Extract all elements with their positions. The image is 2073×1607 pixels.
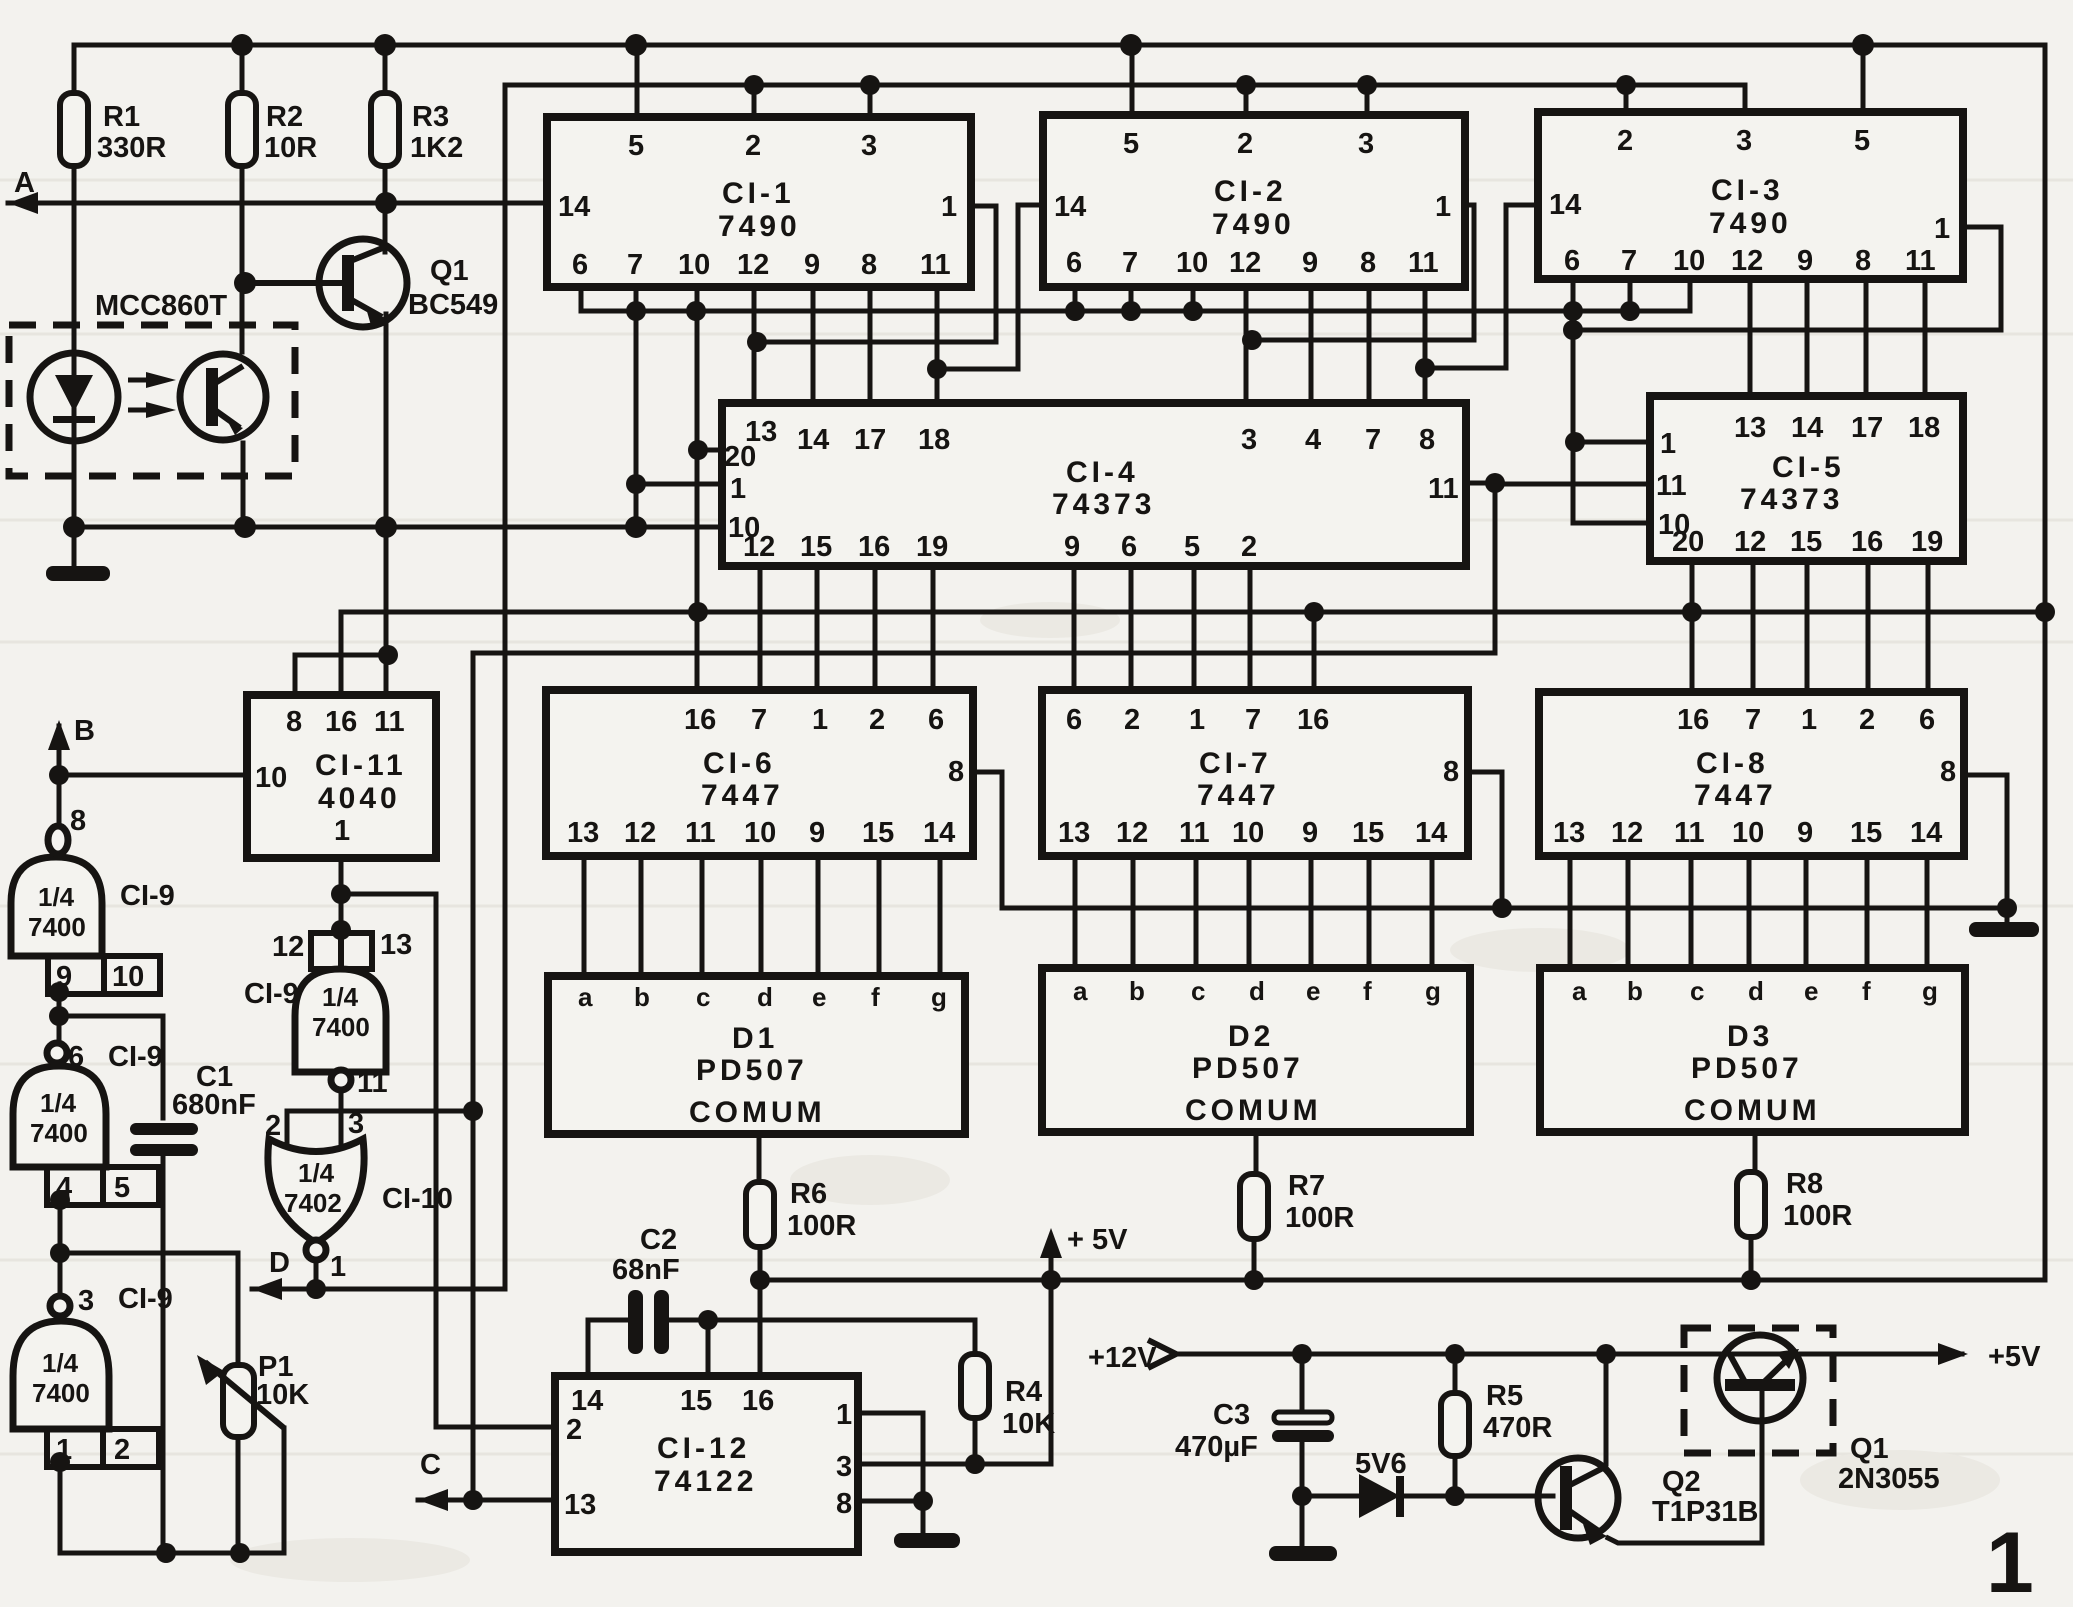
svg-text:f: f xyxy=(1862,976,1871,1006)
svg-text:CI-1: CI-1 xyxy=(722,177,795,210)
svg-text:g: g xyxy=(1922,976,1938,1006)
svg-text:18: 18 xyxy=(918,424,950,456)
svg-text:10K: 10K xyxy=(256,1379,309,1411)
svg-text:16: 16 xyxy=(1851,526,1883,558)
svg-text:17: 17 xyxy=(1851,412,1883,444)
svg-text:f: f xyxy=(1363,976,1372,1006)
svg-text:14: 14 xyxy=(1910,817,1942,849)
svg-text:14: 14 xyxy=(1054,191,1086,223)
svg-text:14: 14 xyxy=(571,1385,603,1417)
svg-text:11: 11 xyxy=(1179,817,1210,849)
svg-text:11: 11 xyxy=(920,249,951,281)
svg-text:12: 12 xyxy=(1731,245,1763,277)
svg-text:CI-11: CI-11 xyxy=(315,749,407,782)
svg-text:Q2: Q2 xyxy=(1662,1466,1701,1498)
svg-text:2: 2 xyxy=(1859,704,1875,736)
svg-text:16: 16 xyxy=(684,704,716,736)
svg-text:1: 1 xyxy=(812,704,828,736)
svg-text:7490: 7490 xyxy=(718,210,801,243)
svg-text:13: 13 xyxy=(564,1489,596,1521)
svg-text:Q1: Q1 xyxy=(1850,1433,1889,1465)
svg-text:19: 19 xyxy=(916,531,948,563)
svg-text:1: 1 xyxy=(1189,704,1205,736)
svg-text:4040: 4040 xyxy=(318,782,401,815)
svg-text:d: d xyxy=(757,982,773,1012)
svg-text:2: 2 xyxy=(869,704,885,736)
svg-text:12: 12 xyxy=(1611,817,1643,849)
svg-text:2: 2 xyxy=(265,1110,281,1142)
svg-text:16: 16 xyxy=(1297,704,1329,736)
svg-text:b: b xyxy=(1627,976,1643,1006)
svg-text:2: 2 xyxy=(566,1414,582,1446)
svg-text:680nF: 680nF xyxy=(172,1089,256,1121)
svg-text:f: f xyxy=(871,982,880,1012)
svg-text:D: D xyxy=(269,1247,290,1279)
svg-text:11: 11 xyxy=(1428,473,1459,505)
svg-text:12: 12 xyxy=(1116,817,1148,849)
svg-text:14: 14 xyxy=(1415,817,1447,849)
svg-text:CI-3: CI-3 xyxy=(1711,174,1784,207)
svg-text:R7: R7 xyxy=(1288,1170,1325,1202)
svg-text:20: 20 xyxy=(1672,526,1704,558)
svg-text:100R: 100R xyxy=(1783,1200,1852,1232)
svg-text:14: 14 xyxy=(797,424,829,456)
svg-text:COMUM: COMUM xyxy=(1185,1094,1322,1127)
svg-text:2: 2 xyxy=(1237,128,1253,160)
svg-text:7400: 7400 xyxy=(28,912,86,942)
svg-text:8: 8 xyxy=(836,1488,852,1520)
svg-text:D2: D2 xyxy=(1228,1020,1274,1053)
svg-text:3: 3 xyxy=(78,1285,94,1317)
svg-text:1/4: 1/4 xyxy=(38,882,75,912)
svg-text:15: 15 xyxy=(862,817,894,849)
svg-text:CI-9: CI-9 xyxy=(120,880,175,912)
svg-text:7400: 7400 xyxy=(30,1118,88,1148)
svg-text:8: 8 xyxy=(1855,245,1871,277)
svg-text:1/4: 1/4 xyxy=(298,1158,335,1188)
svg-text:c: c xyxy=(1191,976,1205,1006)
svg-text:COMUM: COMUM xyxy=(689,1096,826,1129)
svg-text:11: 11 xyxy=(1905,245,1936,277)
svg-text:1: 1 xyxy=(1986,1515,2034,1607)
svg-text:a: a xyxy=(1073,976,1088,1006)
svg-text:6: 6 xyxy=(68,1041,84,1073)
svg-text:74373: 74373 xyxy=(1740,483,1843,516)
svg-text:11: 11 xyxy=(685,817,716,849)
svg-text:a: a xyxy=(578,982,593,1012)
svg-text:2: 2 xyxy=(745,130,761,162)
svg-text:10: 10 xyxy=(678,249,710,281)
svg-text:10: 10 xyxy=(1232,817,1264,849)
svg-text:R3: R3 xyxy=(412,101,449,133)
svg-text:CI-12: CI-12 xyxy=(657,1432,750,1465)
svg-text:R1: R1 xyxy=(103,101,140,133)
svg-text:7447: 7447 xyxy=(701,779,784,812)
svg-text:1: 1 xyxy=(941,191,957,223)
svg-text:8: 8 xyxy=(1443,756,1459,788)
svg-text:1: 1 xyxy=(1801,704,1817,736)
svg-text:8: 8 xyxy=(1419,424,1435,456)
svg-text:CI-8: CI-8 xyxy=(1696,747,1769,780)
svg-text:Q1: Q1 xyxy=(430,255,469,287)
svg-text:12: 12 xyxy=(272,931,304,963)
svg-text:10: 10 xyxy=(1732,817,1764,849)
svg-text:2: 2 xyxy=(1124,704,1140,736)
svg-text:7: 7 xyxy=(751,704,767,736)
svg-text:17: 17 xyxy=(854,424,886,456)
svg-text:8: 8 xyxy=(948,756,964,788)
svg-text:11: 11 xyxy=(1656,470,1687,502)
svg-text:10R: 10R xyxy=(264,132,317,164)
svg-text:1: 1 xyxy=(1660,428,1676,460)
svg-text:9: 9 xyxy=(809,817,825,849)
svg-text:8: 8 xyxy=(70,805,86,837)
svg-text:10: 10 xyxy=(1673,245,1705,277)
svg-text:9: 9 xyxy=(1302,817,1318,849)
svg-text:6: 6 xyxy=(1066,247,1082,279)
svg-text:2N3055: 2N3055 xyxy=(1838,1463,1940,1495)
svg-text:d: d xyxy=(1249,976,1265,1006)
svg-text:4: 4 xyxy=(1305,424,1321,456)
svg-text:2: 2 xyxy=(114,1434,130,1466)
svg-text:CI-6: CI-6 xyxy=(703,747,776,780)
svg-text:7490: 7490 xyxy=(1709,207,1792,240)
svg-text:12: 12 xyxy=(743,531,775,563)
svg-text:10: 10 xyxy=(112,961,144,993)
svg-text:15: 15 xyxy=(800,531,832,563)
svg-text:16: 16 xyxy=(858,531,890,563)
svg-text:20: 20 xyxy=(724,441,756,473)
svg-text:1/4: 1/4 xyxy=(322,982,359,1012)
svg-text:T1P31B: T1P31B xyxy=(1652,1496,1758,1528)
svg-text:1: 1 xyxy=(1934,213,1950,245)
svg-text:330R: 330R xyxy=(97,132,166,164)
svg-text:8: 8 xyxy=(861,249,877,281)
svg-text:b: b xyxy=(634,982,650,1012)
svg-text:10: 10 xyxy=(744,817,776,849)
svg-text:1: 1 xyxy=(330,1251,346,1283)
svg-text:1/4: 1/4 xyxy=(42,1348,79,1378)
svg-text:PD507: PD507 xyxy=(1192,1052,1304,1085)
svg-text:c: c xyxy=(696,982,710,1012)
svg-text:B: B xyxy=(74,715,95,747)
svg-text:d: d xyxy=(1748,976,1764,1006)
svg-text:e: e xyxy=(812,982,826,1012)
svg-text:2: 2 xyxy=(1241,531,1257,563)
svg-text:6: 6 xyxy=(572,249,588,281)
svg-text:a: a xyxy=(1572,976,1587,1006)
svg-text:5V6: 5V6 xyxy=(1355,1448,1407,1480)
svg-text:3: 3 xyxy=(836,1451,852,1483)
svg-text:68nF: 68nF xyxy=(612,1254,680,1286)
svg-text:CI-2: CI-2 xyxy=(1214,175,1287,208)
svg-text:CI-9: CI-9 xyxy=(244,978,299,1010)
svg-text:PD507: PD507 xyxy=(1691,1052,1803,1085)
svg-text:5: 5 xyxy=(114,1172,130,1204)
svg-text:MCC860T: MCC860T xyxy=(95,290,227,322)
svg-text:2: 2 xyxy=(1617,125,1633,157)
svg-text:PD507: PD507 xyxy=(696,1054,808,1087)
svg-text:74122: 74122 xyxy=(654,1465,757,1498)
svg-text:14: 14 xyxy=(923,817,955,849)
svg-text:5: 5 xyxy=(1184,531,1200,563)
svg-text:+5V: +5V xyxy=(1988,1341,2041,1373)
svg-text:C3: C3 xyxy=(1213,1399,1250,1431)
svg-text:7: 7 xyxy=(1621,245,1637,277)
svg-text:R6: R6 xyxy=(790,1178,827,1210)
svg-text:7: 7 xyxy=(627,249,643,281)
svg-text:9: 9 xyxy=(1064,531,1080,563)
svg-text:12: 12 xyxy=(1229,247,1261,279)
svg-text:5: 5 xyxy=(1123,128,1139,160)
svg-text:9: 9 xyxy=(56,961,72,993)
svg-text:14: 14 xyxy=(1791,412,1823,444)
svg-text:7400: 7400 xyxy=(312,1012,370,1042)
svg-text:CI-10: CI-10 xyxy=(382,1183,453,1215)
svg-text:14: 14 xyxy=(558,191,590,223)
svg-text:74373: 74373 xyxy=(1052,488,1155,521)
svg-text:15: 15 xyxy=(1850,817,1882,849)
svg-text:12: 12 xyxy=(624,817,656,849)
svg-text:R2: R2 xyxy=(266,101,303,133)
svg-text:7: 7 xyxy=(1365,424,1381,456)
svg-text:100R: 100R xyxy=(1285,1202,1354,1234)
svg-text:e: e xyxy=(1804,976,1818,1006)
svg-text:6: 6 xyxy=(928,704,944,736)
svg-text:18: 18 xyxy=(1908,412,1940,444)
svg-text:5: 5 xyxy=(1854,125,1870,157)
svg-text:13: 13 xyxy=(1734,412,1766,444)
svg-text:6: 6 xyxy=(1919,704,1935,736)
svg-text:g: g xyxy=(931,982,947,1012)
svg-text:6: 6 xyxy=(1121,531,1137,563)
svg-text:9: 9 xyxy=(1797,817,1813,849)
svg-text:7: 7 xyxy=(1245,704,1261,736)
svg-text:A: A xyxy=(14,167,35,199)
svg-text:7447: 7447 xyxy=(1694,779,1777,812)
svg-text:12: 12 xyxy=(737,249,769,281)
svg-text:19: 19 xyxy=(1911,526,1943,558)
svg-text:1/4: 1/4 xyxy=(40,1088,77,1118)
svg-text:13: 13 xyxy=(1553,817,1585,849)
svg-text:R5: R5 xyxy=(1486,1380,1523,1412)
svg-text:13: 13 xyxy=(380,929,412,961)
svg-text:1K2: 1K2 xyxy=(410,132,463,164)
svg-text:c: c xyxy=(1690,976,1704,1006)
svg-text:+12V: +12V xyxy=(1088,1342,1157,1374)
svg-text:1: 1 xyxy=(1435,191,1451,223)
svg-text:CI-9: CI-9 xyxy=(108,1041,163,1073)
svg-text:3: 3 xyxy=(1736,125,1752,157)
svg-text:8: 8 xyxy=(286,706,302,738)
svg-text:CI-4: CI-4 xyxy=(1066,456,1139,489)
svg-text:8: 8 xyxy=(1940,756,1956,788)
svg-text:1: 1 xyxy=(730,473,746,505)
svg-text:15: 15 xyxy=(680,1385,712,1417)
svg-text:7447: 7447 xyxy=(1197,779,1280,812)
svg-text:100R: 100R xyxy=(787,1210,856,1242)
svg-text:11: 11 xyxy=(374,706,405,738)
svg-text:11: 11 xyxy=(1408,247,1439,279)
svg-text:1: 1 xyxy=(334,815,350,847)
svg-text:3: 3 xyxy=(1241,424,1257,456)
svg-text:C: C xyxy=(420,1449,441,1481)
svg-text:4: 4 xyxy=(56,1172,72,1204)
svg-text:+ 5V: + 5V xyxy=(1067,1224,1128,1256)
svg-text:COMUM: COMUM xyxy=(1684,1094,1821,1127)
svg-text:14: 14 xyxy=(1549,189,1581,221)
svg-text:7: 7 xyxy=(1745,704,1761,736)
svg-text:13: 13 xyxy=(567,817,599,849)
svg-text:7400: 7400 xyxy=(32,1378,90,1408)
svg-text:CI-5: CI-5 xyxy=(1772,451,1845,484)
svg-text:b: b xyxy=(1129,976,1145,1006)
svg-text:13: 13 xyxy=(1058,817,1090,849)
svg-text:3: 3 xyxy=(1358,128,1374,160)
svg-text:CI-9: CI-9 xyxy=(118,1283,173,1315)
svg-text:15: 15 xyxy=(1790,526,1822,558)
svg-text:11: 11 xyxy=(357,1067,388,1099)
svg-text:R8: R8 xyxy=(1786,1168,1823,1200)
svg-text:D3: D3 xyxy=(1727,1020,1773,1053)
svg-text:8: 8 xyxy=(1360,247,1376,279)
svg-text:9: 9 xyxy=(804,249,820,281)
svg-text:1: 1 xyxy=(56,1434,72,1466)
svg-text:15: 15 xyxy=(1352,817,1384,849)
svg-text:7490: 7490 xyxy=(1212,208,1295,241)
svg-text:470µF: 470µF xyxy=(1175,1431,1258,1463)
svg-text:BC549: BC549 xyxy=(408,289,498,321)
svg-text:7402: 7402 xyxy=(284,1188,342,1218)
svg-text:5: 5 xyxy=(628,130,644,162)
svg-text:g: g xyxy=(1425,976,1441,1006)
svg-text:10K: 10K xyxy=(1002,1408,1055,1440)
svg-text:11: 11 xyxy=(1674,817,1705,849)
svg-text:CI-7: CI-7 xyxy=(1199,747,1272,780)
svg-text:16: 16 xyxy=(742,1385,774,1417)
svg-text:6: 6 xyxy=(1066,704,1082,736)
svg-text:3: 3 xyxy=(348,1108,364,1140)
svg-text:9: 9 xyxy=(1797,245,1813,277)
svg-text:10: 10 xyxy=(1176,247,1208,279)
svg-text:16: 16 xyxy=(1677,704,1709,736)
svg-text:9: 9 xyxy=(1302,247,1318,279)
svg-text:12: 12 xyxy=(1734,526,1766,558)
svg-text:470R: 470R xyxy=(1483,1412,1552,1444)
svg-text:10: 10 xyxy=(255,762,287,794)
svg-text:e: e xyxy=(1306,976,1320,1006)
svg-text:16: 16 xyxy=(325,706,357,738)
svg-text:C2: C2 xyxy=(640,1224,677,1256)
svg-text:R4: R4 xyxy=(1005,1376,1042,1408)
svg-text:6: 6 xyxy=(1564,245,1580,277)
svg-text:D1: D1 xyxy=(732,1022,778,1055)
svg-text:1: 1 xyxy=(836,1399,852,1431)
svg-text:3: 3 xyxy=(861,130,877,162)
svg-text:7: 7 xyxy=(1122,247,1138,279)
